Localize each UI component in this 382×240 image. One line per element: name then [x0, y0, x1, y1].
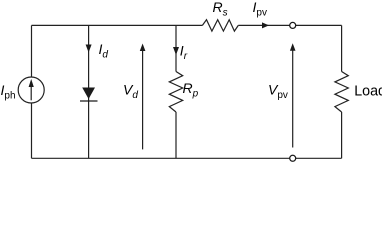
svg-text:Vd: Vd — [123, 82, 138, 102]
svg-text:Load: Load — [354, 83, 382, 99]
svg-text:Id: Id — [99, 41, 109, 61]
svg-text:Vpv: Vpv — [268, 82, 288, 102]
wire left vertical upper — [31, 25, 33, 77]
current source arrow shaft — [30, 85, 32, 101]
svg-text:Ir: Ir — [180, 43, 188, 63]
current source arrow head — [29, 79, 34, 87]
svg-text:Rp: Rp — [183, 80, 199, 100]
wire bottom — [32, 157, 342, 159]
arrow V_d head — [140, 44, 146, 52]
terminal bottom circle — [290, 155, 296, 161]
resistor Rp — [169, 72, 182, 113]
wire top-right segment — [238, 24, 341, 26]
arrow I_pv head — [262, 22, 269, 28]
arrow I_d head — [86, 45, 92, 53]
svg-text:Ipv: Ipv — [253, 0, 267, 19]
terminal top circle — [290, 22, 296, 28]
resistor Rs — [202, 20, 238, 31]
wire load branch upper — [341, 25, 343, 71]
svg-text:Rs: Rs — [213, 0, 228, 18]
arrow V_pv head — [290, 43, 296, 51]
diode cathode bar — [80, 100, 98, 102]
arrow V_pv shaft — [292, 48, 294, 148]
wire load branch lower — [341, 112, 343, 158]
svg-text:Iph: Iph — [1, 82, 16, 102]
wire Rp branch lower — [175, 112, 177, 158]
wire top-left segment — [32, 24, 203, 26]
wire diode branch — [88, 25, 90, 158]
resistor Load — [335, 72, 348, 113]
arrow I_r head — [173, 47, 179, 55]
diode D triangle — [82, 88, 95, 100]
arrow V_d shaft — [142, 48, 144, 149]
wire left vertical lower — [31, 103, 33, 159]
current source I_ph circle — [18, 77, 44, 103]
wire Rp branch upper — [175, 25, 177, 71]
